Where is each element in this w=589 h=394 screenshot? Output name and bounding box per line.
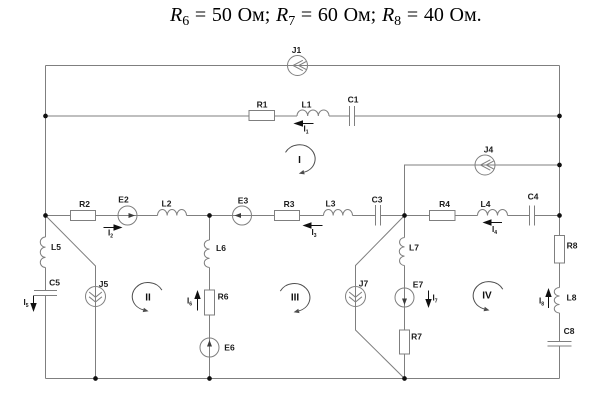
svg-text:C5: C5 xyxy=(49,278,60,288)
svg-text:L5: L5 xyxy=(51,242,61,252)
svg-text:IV: IV xyxy=(482,291,492,302)
svg-text:C1: C1 xyxy=(348,95,359,105)
svg-text:L7: L7 xyxy=(409,243,419,253)
svg-text:R2: R2 xyxy=(79,199,90,209)
svg-text:II: II xyxy=(145,293,151,304)
svg-text:J4: J4 xyxy=(484,145,494,155)
svg-text:J1: J1 xyxy=(292,45,302,55)
svg-text:R6 = 50 Ом; R7 = 60 Ом; R8 =: R6 = 50 Ом; R7 = 60 Ом; R8 = 40 Ом. xyxy=(169,4,482,29)
svg-text:C3: C3 xyxy=(372,195,383,205)
svg-text:L2: L2 xyxy=(162,199,172,209)
svg-text:C4: C4 xyxy=(528,192,539,202)
svg-text:R1: R1 xyxy=(257,100,268,110)
svg-text:R4: R4 xyxy=(439,199,450,209)
svg-text:J5: J5 xyxy=(99,279,109,289)
svg-text:J7: J7 xyxy=(359,279,369,289)
svg-text:E2: E2 xyxy=(118,195,129,205)
svg-text:E7: E7 xyxy=(413,280,424,290)
svg-text:L4: L4 xyxy=(481,199,491,209)
svg-text:E6: E6 xyxy=(224,343,235,353)
svg-text:I: I xyxy=(298,155,301,166)
svg-text:R6: R6 xyxy=(218,292,229,302)
svg-text:III: III xyxy=(291,293,300,304)
svg-text:C8: C8 xyxy=(564,326,575,336)
svg-text:R3: R3 xyxy=(284,199,295,209)
svg-text:L6: L6 xyxy=(216,243,226,253)
svg-text:L8: L8 xyxy=(567,293,577,303)
svg-text:R7: R7 xyxy=(411,332,422,342)
svg-text:R8: R8 xyxy=(567,241,578,251)
svg-text:L3: L3 xyxy=(326,199,336,209)
svg-text:L1: L1 xyxy=(302,100,312,110)
svg-text:E3: E3 xyxy=(238,196,249,206)
